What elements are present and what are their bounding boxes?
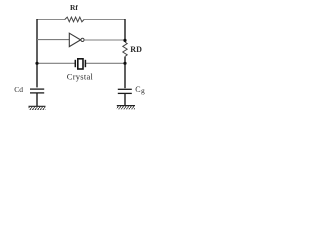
svg-text:Rf: Rf bbox=[70, 3, 78, 12]
wire inverter output horizontal bbox=[84, 39, 125, 41]
node output junction bbox=[123, 39, 126, 42]
svg-text:Cg: Cg bbox=[135, 85, 145, 95]
wire crystal right horizontal bbox=[86, 62, 125, 64]
wire crystal left horizontal bbox=[37, 62, 75, 64]
capacitor Cg top plate bbox=[118, 88, 132, 90]
wire right vertical upper bbox=[124, 19, 126, 42]
ground right bbox=[117, 106, 135, 110]
crystal X1 right plate bbox=[84, 60, 86, 67]
node crystal-left junction bbox=[35, 62, 38, 65]
wire top-right horizontal (Rf to output node) bbox=[84, 19, 125, 21]
node crystal-right junction bbox=[123, 62, 126, 65]
crystal X1 body bbox=[78, 59, 83, 69]
capacitor Cd bottom plate bbox=[30, 92, 44, 94]
svg-text:RD: RD bbox=[130, 45, 142, 54]
svg-text:Crystal: Crystal bbox=[67, 71, 94, 81]
crystal X1 left plate bbox=[74, 60, 76, 67]
capacitor Cg bottom plate bbox=[118, 92, 132, 94]
wire right vertical lower bbox=[124, 57, 126, 88]
resistor RD bbox=[123, 42, 127, 57]
wire left vertical (input node) bbox=[36, 19, 38, 87]
wire inverter input horizontal bbox=[37, 39, 69, 41]
op-amp U1 (inverter triangle) bbox=[69, 33, 80, 46]
wire Cd to ground bbox=[36, 93, 38, 106]
wire top-left horizontal (input node to Rf) bbox=[37, 19, 65, 21]
capacitor Cd top plate bbox=[30, 88, 44, 90]
ground left bbox=[29, 106, 46, 110]
svg-text:Cd: Cd bbox=[14, 85, 23, 94]
resistor Rf bbox=[65, 17, 84, 22]
inverter output bubble bbox=[81, 38, 84, 41]
wire Cg to ground bbox=[124, 94, 126, 106]
